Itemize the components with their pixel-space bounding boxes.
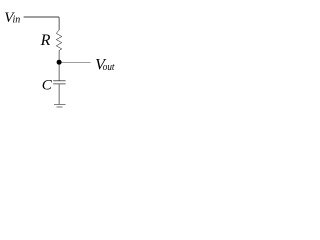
- svg-text:C: C: [42, 77, 53, 93]
- wire node to Vout: [61, 62, 91, 64]
- ground: [54, 103, 66, 105]
- capacitor C top plate: [53, 80, 65, 82]
- wire from Vin to corner: [24, 17, 60, 30]
- svg-text:R: R: [40, 32, 51, 49]
- capacitor C bottom plate: [53, 83, 65, 85]
- resistor R1: [56, 30, 61, 50]
- wire capacitor to ground: [58, 84, 60, 104]
- wire node to capacitor: [58, 64, 60, 81]
- wire resistor to node: [58, 50, 60, 60]
- node junction dot: [57, 60, 62, 65]
